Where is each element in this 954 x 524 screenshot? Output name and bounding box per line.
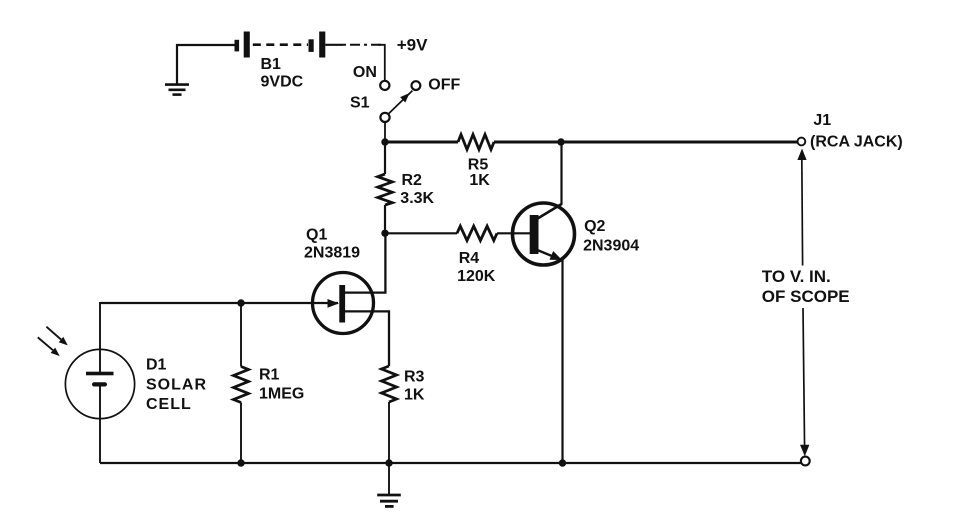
svg-text:1K: 1K xyxy=(469,172,490,189)
label R5 1K xyxy=(468,157,490,189)
resistor R5 xyxy=(458,135,494,150)
svg-text:SOLAR: SOLAR xyxy=(146,376,207,393)
resistor R2 xyxy=(378,174,393,205)
svg-text:Q1: Q1 xyxy=(306,227,327,244)
node (collector junction) xyxy=(557,138,564,145)
wire (R1 top lead) xyxy=(240,303,242,367)
wire (R1 bottom lead) xyxy=(240,403,242,464)
wire (Q1 source to R3) xyxy=(345,311,389,366)
connector J1 (bottom terminal) xyxy=(801,457,810,466)
resistor R4 xyxy=(457,226,497,240)
svg-text:CELL: CELL xyxy=(146,396,192,413)
wire (junction down to Q1 drain) xyxy=(344,233,385,292)
label TO V. IN. OF SCOPE xyxy=(762,267,850,306)
node (R1 / bottom rail junction) xyxy=(237,459,244,466)
wire (scope line upper) xyxy=(801,156,804,266)
label R1 1MEG xyxy=(259,367,304,403)
photocell D1 xyxy=(65,349,134,418)
svg-text:1K: 1K xyxy=(404,387,425,404)
svg-text:J1: J1 xyxy=(813,112,831,129)
svg-text:120K: 120K xyxy=(457,268,496,285)
svg-text:D1: D1 xyxy=(146,357,167,374)
label D1 SOLAR CELL xyxy=(146,357,207,414)
wire (scope line lower) xyxy=(803,308,805,450)
svg-text:ON: ON xyxy=(353,64,377,81)
scope arrow (down) xyxy=(800,445,809,456)
wire (battery to switch, dash-dot) xyxy=(325,45,385,81)
svg-text:9VDC: 9VDC xyxy=(261,73,304,90)
transistor Q2 (NPN) xyxy=(513,203,575,265)
wire (gate rail) xyxy=(100,302,338,304)
light arrows xyxy=(38,327,68,356)
label B1 9VDC xyxy=(261,56,304,91)
svg-text:1MEG: 1MEG xyxy=(259,386,304,403)
svg-text:S1: S1 xyxy=(350,95,370,112)
switch S1 xyxy=(380,81,420,122)
node (emitter / bottom rail junction) xyxy=(559,459,566,466)
node (R2 / R4 / drain junction) xyxy=(381,230,388,237)
wire (R4 left lead) xyxy=(385,232,457,234)
svg-text:2N3904: 2N3904 xyxy=(583,238,639,255)
resistor R1 xyxy=(234,367,249,403)
svg-text:+9V: +9V xyxy=(397,36,428,55)
wire (ground to battery) xyxy=(177,45,235,84)
wire (Q2 emitter to bottom rail) xyxy=(561,260,563,464)
wire (bottom rail) xyxy=(100,462,801,464)
wire (R3 to bottom rail) xyxy=(388,402,390,463)
transistor Q1 (JFET) xyxy=(313,273,374,334)
wire (switch to rail) xyxy=(384,121,386,142)
svg-text:3.3K: 3.3K xyxy=(400,190,434,207)
node (R3 / ground junction) xyxy=(385,459,392,466)
label R4 120K xyxy=(457,250,496,285)
wire (top rail right of R5) xyxy=(494,141,797,144)
svg-text:OF SCOPE: OF SCOPE xyxy=(762,287,850,306)
battery B1 xyxy=(235,32,326,58)
wire (top rail left of R5) xyxy=(385,141,458,144)
label J1 (RCA JACK) xyxy=(810,112,903,151)
svg-text:R2: R2 xyxy=(402,172,423,189)
svg-text:R3: R3 xyxy=(404,369,425,386)
node (gate / R1 junction) xyxy=(237,299,244,306)
wire (to main ground) xyxy=(388,463,390,494)
svg-text:OFF: OFF xyxy=(428,77,460,94)
wire (R4 to Q2 base) xyxy=(497,232,530,234)
svg-text:TO V. IN.: TO V. IN. xyxy=(762,267,831,286)
connector J1 (top terminal) xyxy=(798,138,806,146)
label R3 1K xyxy=(404,369,425,404)
label Q2 2N3904 xyxy=(583,218,639,255)
resistor R3 xyxy=(382,366,397,402)
wire (Q2 collector to rail) xyxy=(560,142,562,204)
wire (R2 top lead) xyxy=(384,142,386,174)
wire (left branch vertical, top) xyxy=(99,302,101,372)
wire (R2 bottom lead) xyxy=(384,205,386,233)
node (rail / switch junction) xyxy=(381,138,388,145)
ground (battery negative) xyxy=(165,85,189,95)
scope arrow (up) xyxy=(797,149,806,161)
svg-text:R4: R4 xyxy=(459,250,480,267)
label R2 3.3K xyxy=(400,172,434,207)
svg-text:Q2: Q2 xyxy=(584,218,605,235)
svg-text:2N3819: 2N3819 xyxy=(304,245,360,262)
svg-text:B1: B1 xyxy=(261,56,282,73)
label Q1 2N3819 xyxy=(304,227,360,262)
gate arrow of Q1 xyxy=(328,299,340,308)
svg-text:R1: R1 xyxy=(259,367,280,384)
ground (main) xyxy=(377,495,401,506)
svg-text:(RCA JACK): (RCA JACK) xyxy=(810,134,903,151)
wire (left branch vertical, bottom) xyxy=(99,387,101,464)
